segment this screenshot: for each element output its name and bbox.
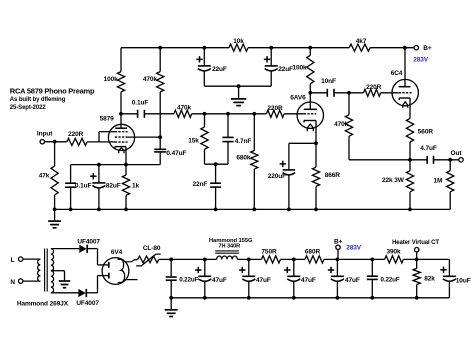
label + 47uF 1 <box>195 267 201 273</box>
label 0.22uF second <box>381 277 400 284</box>
tube 6AV6 grid <box>304 113 316 115</box>
svg-text:4.7nF: 4.7nF <box>235 138 252 145</box>
ground (psu) <box>165 298 178 317</box>
capacitor C 47uF #2 <box>242 259 255 297</box>
label 47uF 4 <box>345 277 360 284</box>
tube 5879 grid g3 <box>115 141 128 143</box>
tube 6V4 plate 1 <box>98 262 109 268</box>
label B+ (preamp) <box>423 45 432 52</box>
tube 6V4 filament <box>118 259 125 282</box>
svg-text:0.22uF: 0.22uF <box>179 277 198 284</box>
wire 0.47uF bottom lead <box>159 152 161 165</box>
label 470k (series) <box>177 105 192 112</box>
tube U2 6AV6 envelope <box>297 102 323 128</box>
svg-text:UF4007: UF4007 <box>77 239 100 246</box>
svg-text:0.1uF: 0.1uF <box>132 99 149 106</box>
label 10uF <box>456 277 471 284</box>
tube 5879 grid g1 <box>115 131 128 133</box>
label 0.1uF (coupling) <box>132 99 149 106</box>
svg-text:47k: 47k <box>39 173 50 180</box>
tube 6C4 plate <box>399 48 411 87</box>
label CL-80 <box>143 245 161 252</box>
label 470k (6C4) <box>334 121 349 128</box>
wire g2 to screen node <box>128 136 161 138</box>
node rail junctions <box>158 46 406 50</box>
label 47uF 1 <box>212 277 227 284</box>
label N <box>10 279 15 286</box>
capacitor C 0.1uF (cathode) <box>65 183 76 187</box>
label 10nF <box>321 78 336 85</box>
wire 0.1uF to 470k <box>144 113 174 115</box>
label 390k <box>386 248 401 255</box>
capacitor C 47uF #1 <box>198 259 211 297</box>
wire D2 to 6V4 plate <box>86 276 97 293</box>
wire RIAA top <box>192 112 267 116</box>
label 560R <box>418 128 434 135</box>
label subtitle <box>10 97 66 103</box>
label UF4007 top <box>77 239 100 246</box>
svg-text:470k: 470k <box>177 105 192 112</box>
resistor R 470k (5879 screen) <box>157 72 164 92</box>
svg-text:1k: 1k <box>132 182 140 189</box>
tube U3 6C4 envelope <box>392 79 418 105</box>
wire ground bus (preamp) <box>55 208 451 210</box>
svg-text:B+: B+ <box>423 45 432 52</box>
svg-text:47uF: 47uF <box>345 277 360 284</box>
diode D1 UF4007 <box>79 245 87 253</box>
resistor R 220R (6C4 grid) <box>364 89 381 96</box>
label Hammond 155G <box>209 238 253 244</box>
label 0.1uF (cathode) <box>75 182 92 189</box>
capacitor C 0.22uF (psu second) <box>367 259 378 297</box>
svg-text:Input: Input <box>37 131 53 138</box>
resistor R 15k <box>201 127 208 149</box>
resistor R 680k <box>251 114 258 210</box>
resistor R 750R <box>262 256 281 263</box>
label + 47uF 3 <box>284 267 290 273</box>
capacitor C 0.47uF (screen bypass) <box>154 149 166 152</box>
wire cathode node <box>71 163 161 183</box>
terminal Out <box>459 158 463 162</box>
wire secondary bottom <box>51 292 79 294</box>
label 22uF first <box>212 66 227 73</box>
svg-text:6V4: 6V4 <box>111 249 123 256</box>
label + 10uF <box>440 267 446 273</box>
tube 5879 plate <box>115 127 127 129</box>
wire RIAA sub node <box>205 162 229 166</box>
svg-text:1M: 1M <box>433 178 442 185</box>
label 220R (6AV6) <box>267 105 283 112</box>
tube U4 6V4 envelope <box>102 258 129 285</box>
svg-text:CL-80: CL-80 <box>143 245 161 252</box>
svg-text:N: N <box>10 279 15 286</box>
resistor R 4k7 (rail) <box>349 44 370 51</box>
resistor R 47k (input load) <box>51 166 58 195</box>
svg-text:15k: 15k <box>188 138 199 145</box>
label 82k <box>424 276 435 283</box>
label 470k (5879 screen) <box>143 76 158 83</box>
svg-text:22nF: 22nF <box>193 181 208 188</box>
wire plate to 10nF <box>310 92 327 94</box>
label 10k <box>233 38 244 45</box>
label 6AV6 <box>290 94 306 101</box>
resistor R 82k <box>413 259 420 297</box>
tube 6AV6 cathode <box>304 121 316 123</box>
tube 6AV6 heater <box>307 124 313 131</box>
svg-text:100k: 100k <box>104 76 119 83</box>
capacitor C 220uF (6AV6 cathode) <box>283 170 295 210</box>
capacitor C 22uF (first) <box>198 48 211 86</box>
resistor R 866R <box>312 143 319 209</box>
wire 6AV6 cathode lead <box>315 121 317 144</box>
capacitor C 4.7uF (output) <box>427 156 433 164</box>
svg-text:L: L <box>11 257 15 264</box>
terminal B+ (psu) <box>336 245 340 259</box>
svg-text:4.7uF: 4.7uF <box>420 145 437 152</box>
wire screen node vertical <box>158 92 162 149</box>
label 0.22uF first <box>179 277 198 284</box>
svg-text:680R: 680R <box>305 248 321 255</box>
svg-text:470k: 470k <box>334 121 349 128</box>
svg-text:47uF: 47uF <box>256 277 271 284</box>
wire plate to 0.1uF <box>121 113 138 115</box>
label 100k (6AV6) <box>292 64 307 71</box>
resistor R 470k (series RIAA) <box>174 110 192 117</box>
wire 5879 cathode lead <box>125 147 127 165</box>
capacitor C 10nF (coupling) <box>327 89 334 97</box>
resistor R 1k (cathode) <box>122 165 129 210</box>
capacitor C 82uF (cathode bypass) <box>92 165 105 210</box>
label 5879 <box>100 116 115 123</box>
svg-text:82k: 82k <box>424 276 435 283</box>
svg-text:22uF: 22uF <box>212 66 227 73</box>
wire 6C4 cathode lead <box>409 98 411 118</box>
wire 0.1uF cathode bottom <box>70 187 72 209</box>
svg-text:6AV6: 6AV6 <box>290 94 306 101</box>
label 47uF 2 <box>256 277 271 284</box>
inductor L1 core <box>215 251 239 253</box>
tube U1 5879 envelope <box>108 124 134 150</box>
wire 220R to 6C4 grid <box>381 92 399 94</box>
svg-text:220R: 220R <box>68 131 84 138</box>
wire L lead <box>23 258 40 260</box>
terminal L <box>19 257 23 261</box>
svg-text:0.22uF: 0.22uF <box>381 277 400 284</box>
tube 6C4 grid <box>399 92 412 94</box>
capacitor C 22nF <box>210 164 221 209</box>
svg-text:750R: 750R <box>261 248 277 255</box>
svg-text:6C4: 6C4 <box>391 70 403 77</box>
resistor R 100k (6AV6 plate load) <box>307 48 314 93</box>
svg-text:5879: 5879 <box>100 116 115 123</box>
label 220R (6C4) <box>366 84 382 91</box>
svg-text:Hammond 269JX: Hammond 269JX <box>17 300 69 307</box>
label 47k <box>39 173 50 180</box>
tube 6C4 cathode <box>399 98 410 100</box>
resistor R 22k 3W <box>406 160 413 210</box>
label 22nF <box>193 181 208 188</box>
resistor R 10k (rail) <box>229 44 248 51</box>
svg-text:100k: 100k <box>292 64 307 71</box>
label + 220uF <box>280 161 286 167</box>
label 7H 340R <box>218 244 240 250</box>
capacitor C 22uF (second) <box>265 48 278 86</box>
svg-text:220R: 220R <box>366 84 382 91</box>
tube 6V4 plate 2 <box>98 273 109 279</box>
label 750R <box>261 248 277 255</box>
svg-text:UF4007: UF4007 <box>76 300 99 307</box>
ground (preamp main) <box>48 209 61 227</box>
label 1M <box>433 178 442 185</box>
svg-text:25-Sept-2022: 25-Sept-2022 <box>10 105 47 111</box>
wire center tap <box>51 271 65 281</box>
wire secondary top <box>51 248 79 250</box>
svg-text:0.47uF: 0.47uF <box>166 150 186 157</box>
node PSU bus junctions <box>169 296 418 300</box>
node ground bus junctions <box>53 208 412 212</box>
capacitor C 4.7nF <box>222 114 233 164</box>
label + 47uF 2 <box>239 267 245 273</box>
wire 100k top lead <box>120 48 122 72</box>
tube 6C4 heater <box>403 102 408 108</box>
capacitor C 0.1uF (coupling) <box>138 110 145 118</box>
label Hammond 269JX <box>17 300 69 307</box>
capacitor C 47uF #3 <box>287 259 300 297</box>
svg-text:866R: 866R <box>325 172 341 179</box>
svg-text:22uF: 22uF <box>278 66 293 73</box>
label + 22uF second <box>264 56 270 62</box>
resistor R 220R (input grid stopper) <box>67 138 87 145</box>
label UF4007 bottom <box>76 300 99 307</box>
label + 47uF 4 <box>328 267 334 273</box>
diode D2 UF4007 <box>78 289 86 297</box>
wire 10nF to grid node <box>334 91 364 95</box>
label 283V (psu) <box>346 245 362 252</box>
label 47uF 3 <box>301 277 316 284</box>
svg-text:As built by dfleming: As built by dfleming <box>10 97 66 103</box>
resistor R 560R <box>406 118 413 159</box>
resistor R 100k (5879 plate load) <box>117 72 124 92</box>
transformer T1 primary <box>38 259 41 281</box>
wire PSU ground bus <box>171 297 449 299</box>
node PSU rail junctions <box>169 258 418 262</box>
wire 5879 plate lead <box>119 92 123 128</box>
capacitor C 47uF #4 <box>331 259 344 297</box>
svg-text:680k: 680k <box>236 154 251 161</box>
wire 22uF common <box>204 84 271 88</box>
label L <box>11 257 15 264</box>
svg-text:220R: 220R <box>267 105 283 112</box>
wire D1 to 6V4 plate <box>87 249 97 265</box>
resistor R 1M <box>447 160 454 210</box>
label + 22uF first <box>196 56 202 62</box>
wire CL80 to rail <box>159 258 171 260</box>
label 82uF <box>106 182 121 189</box>
wire input lead <box>45 140 67 144</box>
label 6V4 <box>111 249 123 256</box>
svg-text:390k: 390k <box>386 248 401 255</box>
svg-text:10nF: 10nF <box>321 78 336 85</box>
svg-text:RCA 5879 Phono Preamp: RCA 5879 Phono Preamp <box>10 86 95 95</box>
label Input <box>37 131 53 138</box>
svg-text:4k7: 4k7 <box>356 38 367 45</box>
resistor R 220R (6AV6 grid) <box>266 110 284 117</box>
resistor R 47k (input load) leads <box>54 142 56 210</box>
svg-text:47uF: 47uF <box>301 277 316 284</box>
transformer T1 secondary <box>51 249 54 293</box>
label + 82uF <box>90 173 96 179</box>
svg-text:47uF: 47uF <box>212 277 227 284</box>
tube 6AV6 plate <box>304 93 317 110</box>
tube 5879 grid g2 <box>115 136 128 138</box>
wire 220R to 6AV6 grid <box>284 113 304 115</box>
label 866R <box>325 172 341 179</box>
label 0.47uF <box>166 150 186 157</box>
thermistor CL-80 <box>136 254 161 266</box>
terminal N <box>19 279 23 283</box>
inductor L1 choke winding <box>217 256 238 259</box>
svg-text:B+: B+ <box>334 238 343 245</box>
resistor R 390k <box>385 256 404 263</box>
terminal B+ (preamp) <box>414 46 418 50</box>
svg-text:Out: Out <box>451 150 463 157</box>
label title <box>10 86 95 95</box>
svg-text:10uF: 10uF <box>456 277 471 284</box>
svg-text:560R: 560R <box>418 128 434 135</box>
tube 5879 cathode <box>115 147 126 149</box>
label 4.7uF <box>420 145 437 152</box>
wire N lead <box>23 280 40 282</box>
transformer T1 core <box>45 249 48 292</box>
label Heater Virtual CT <box>392 240 439 246</box>
svg-text:0.1uF: 0.1uF <box>75 182 92 189</box>
svg-text:10k: 10k <box>233 38 244 45</box>
label 6C4 <box>391 70 403 77</box>
svg-text:7H 340R: 7H 340R <box>218 244 240 250</box>
wire input to g3 <box>87 141 115 143</box>
label 220uF <box>268 173 286 180</box>
svg-text:22k 3W: 22k 3W <box>382 177 405 184</box>
label 220R (input) <box>68 131 84 138</box>
resistor R 470k (6C4 grid leak) <box>345 93 352 160</box>
label 22uF second <box>278 66 293 73</box>
svg-text:82uF: 82uF <box>106 182 121 189</box>
terminal Heater Virtual CT <box>415 248 419 260</box>
svg-text:220uF: 220uF <box>268 173 286 180</box>
svg-text:470k: 470k <box>143 76 158 83</box>
wire PSU rail <box>171 258 449 260</box>
svg-text:Heater Virtual CT: Heater Virtual CT <box>392 240 439 246</box>
label 283V (preamp) <box>413 57 429 64</box>
label Out <box>451 150 463 157</box>
terminal Input <box>40 140 44 144</box>
label 1k <box>132 182 140 189</box>
ground (center tap) <box>59 281 70 288</box>
svg-text:283V: 283V <box>413 57 429 64</box>
ground (decoupling) <box>231 86 247 105</box>
capacitor C 10uF <box>443 259 456 297</box>
resistor R 680R <box>305 256 324 263</box>
tube 5879 heater <box>119 148 124 154</box>
wire 470k screen top lead <box>159 48 161 72</box>
wire cathode to 220uF <box>289 141 318 169</box>
wire 6V4 cathode out <box>124 260 138 262</box>
label 4.7nF <box>235 138 252 145</box>
capacitor C 0.22uF (psu first) <box>166 259 177 297</box>
resistor R 15k leads <box>204 114 206 164</box>
label 680k <box>236 154 251 161</box>
label B+ (psu) <box>334 238 343 245</box>
wire 4.7uF to Out <box>434 158 460 162</box>
label 4k7 <box>356 38 367 45</box>
wire g1 jumper <box>99 132 115 142</box>
label date <box>10 105 47 111</box>
wire output node <box>349 158 427 162</box>
label 100k (5879) <box>104 76 119 83</box>
wire 6V4 filament stub <box>124 279 137 281</box>
wire top B+ rail <box>121 47 414 49</box>
label 680R <box>305 248 321 255</box>
label 22k 3W <box>382 177 405 184</box>
node 6AV6 plate <box>308 91 312 95</box>
label 15k <box>188 138 199 145</box>
svg-text:283V: 283V <box>346 245 362 252</box>
